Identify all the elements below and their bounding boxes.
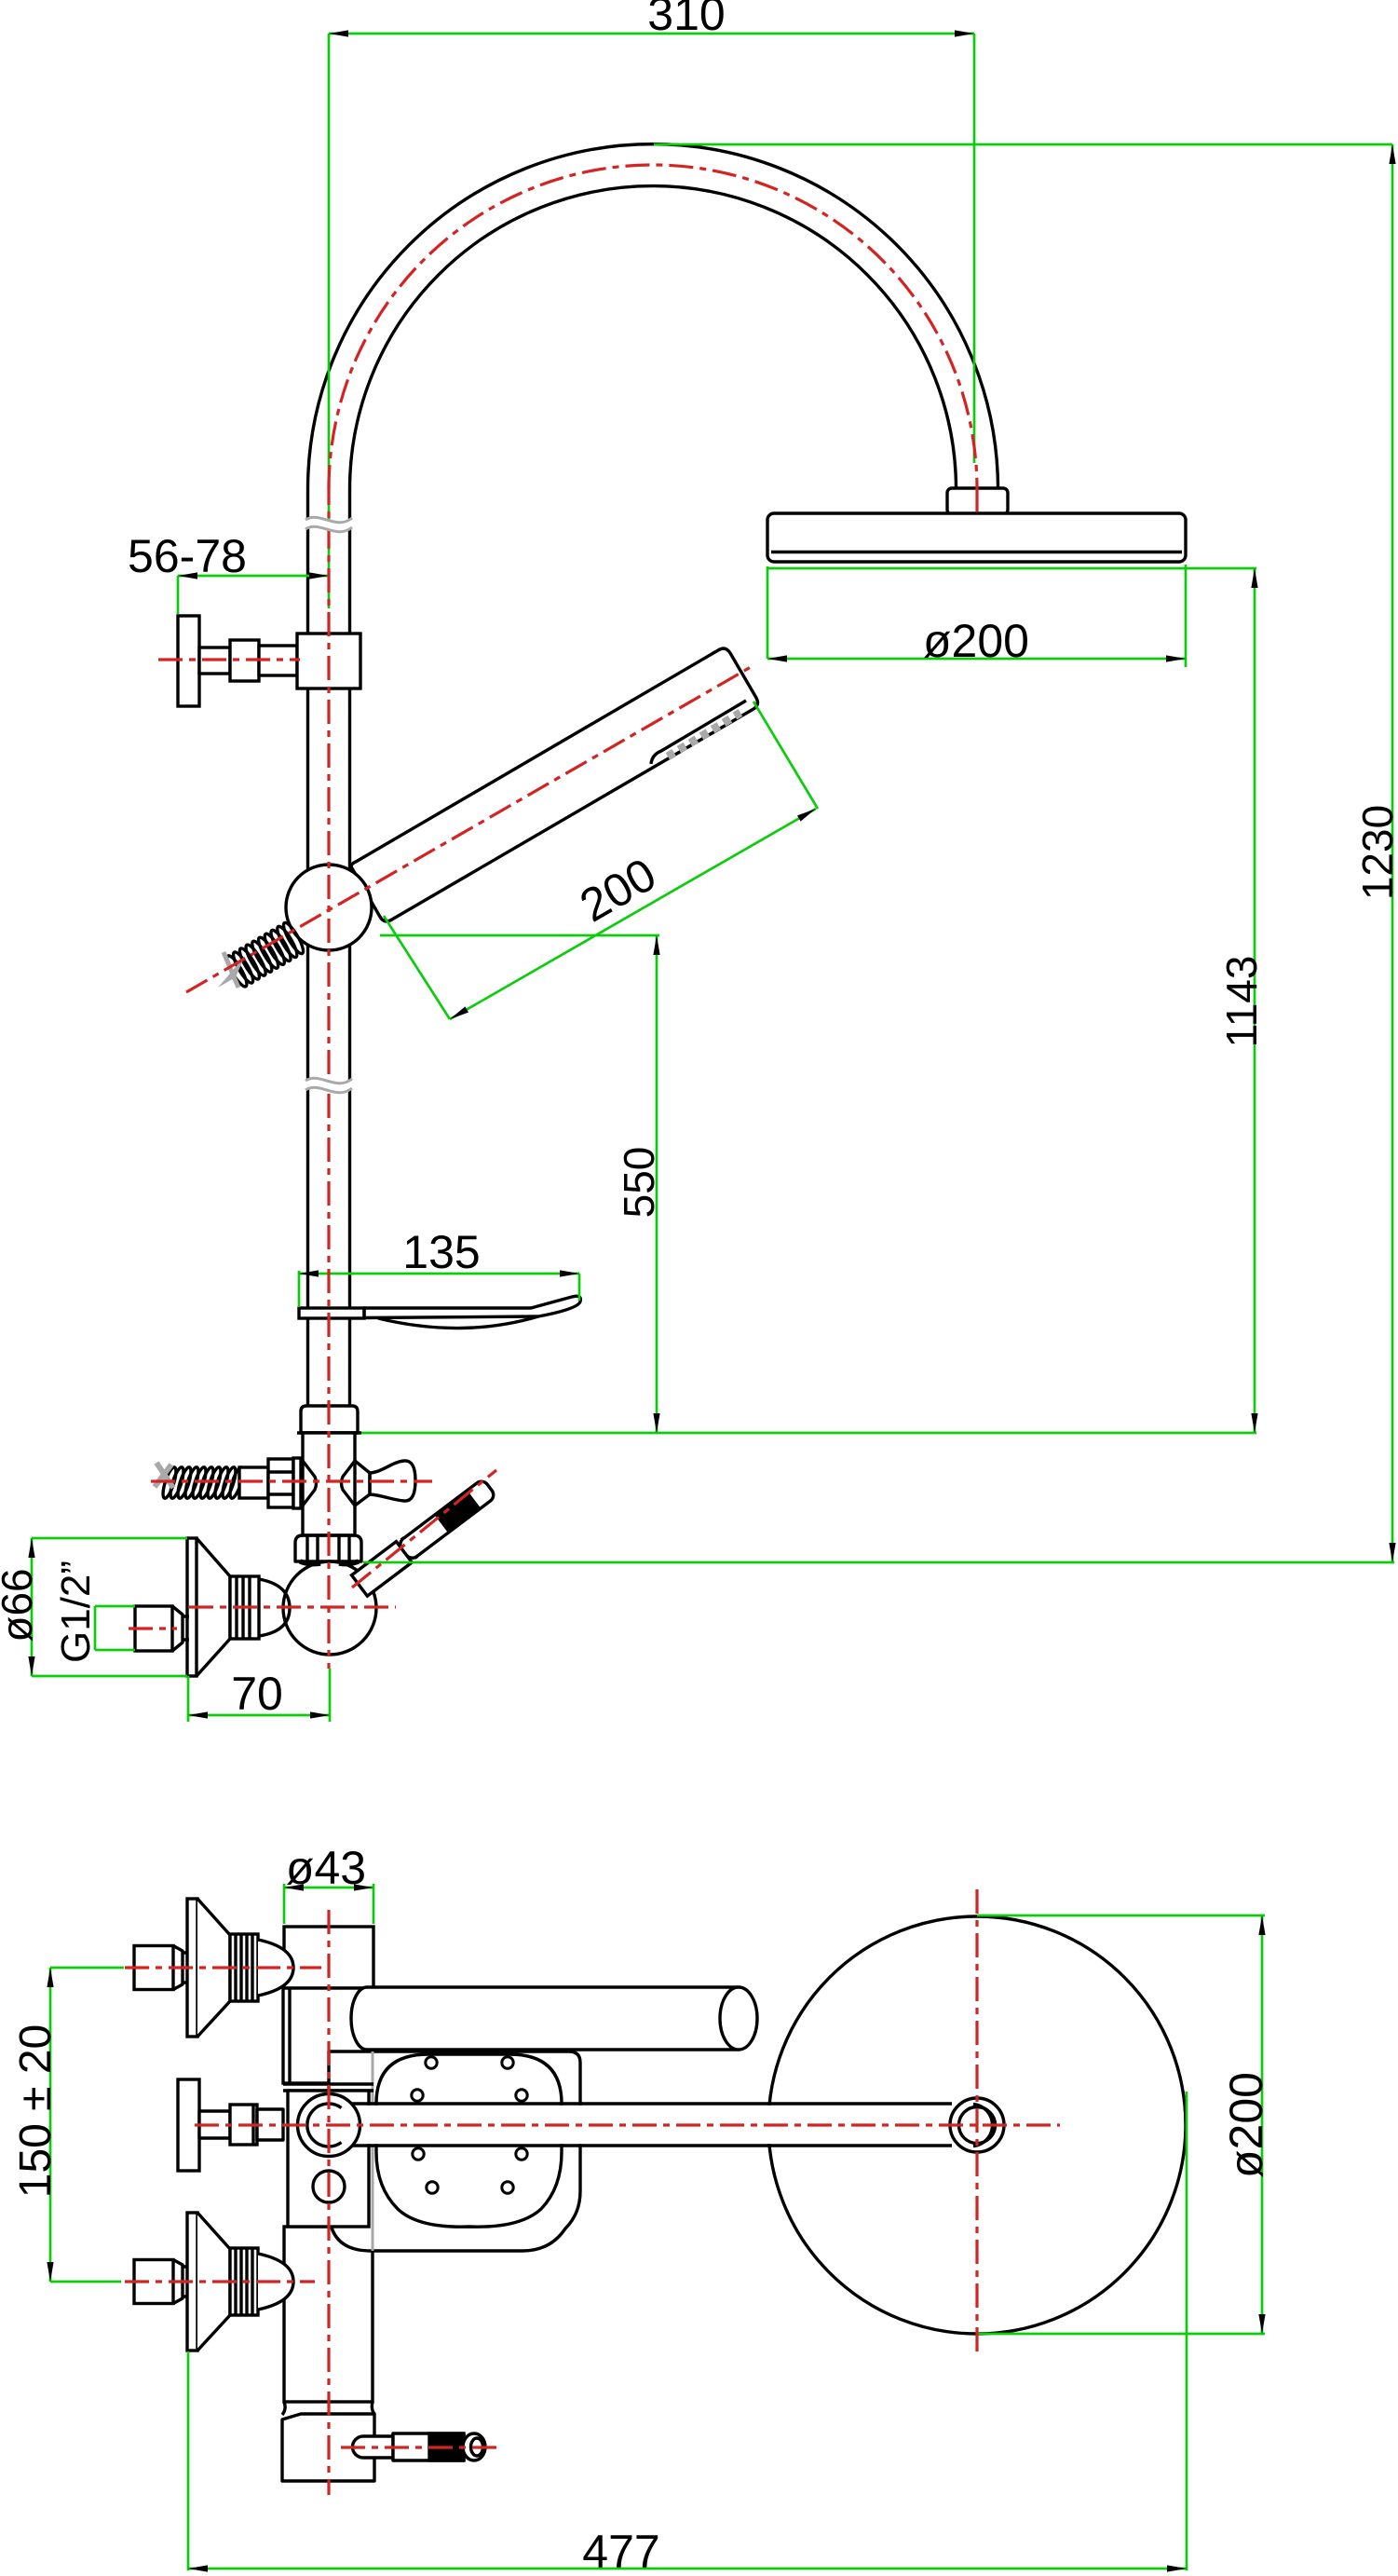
centerline head circle <box>975 1889 978 2357</box>
collar ribs <box>305 1535 308 1561</box>
dim 200 diagonal <box>384 702 818 1019</box>
pivot boss ring <box>950 2098 1004 2152</box>
diverter knob funnel <box>355 1461 370 1506</box>
shower head rim line <box>771 551 1182 553</box>
valve body <box>303 1433 355 1535</box>
soap dish plan inner bowl <box>376 2054 562 2227</box>
plan top handle dome <box>258 1940 293 1996</box>
outlet step <box>391 2433 394 2460</box>
ball joint <box>283 1561 376 1655</box>
shower head disc <box>767 513 1186 562</box>
svg-text:1143: 1143 <box>1217 956 1266 1048</box>
centerline pipe vertical <box>327 481 330 1669</box>
head connector <box>947 488 1008 514</box>
plan top handle escutcheon cone <box>197 1899 230 2037</box>
head disc circle plan <box>768 1916 1186 2334</box>
hose gray arrow <box>218 956 245 988</box>
dim G1/2 <box>95 1606 135 1650</box>
handshower wand body <box>351 648 757 921</box>
soap dish bowl <box>378 1316 538 1329</box>
dim 56-78 <box>178 572 329 614</box>
handshower pivot ball <box>286 865 372 950</box>
green line wand-holder level <box>363 1561 1394 1564</box>
centerline gooseneck arc <box>329 165 977 489</box>
plan middle handle stem <box>199 2111 230 2138</box>
green line head bottom level <box>767 567 1256 570</box>
supply shaft <box>239 1467 268 1498</box>
dim 310 <box>329 30 974 608</box>
dish drain holes <box>426 2057 437 2068</box>
pivot outer circle <box>298 2094 360 2157</box>
diverter tee block <box>297 634 360 688</box>
plan top handle knurl <box>230 1934 258 2001</box>
diverter handle neck <box>259 646 297 675</box>
column neck <box>282 2402 374 2415</box>
valve seat bulge left <box>303 1461 317 1506</box>
outlet big tube <box>393 2433 464 2460</box>
svg-text:ø43: ø43 <box>286 1842 366 1894</box>
handshower cylinder end cap <box>720 1987 757 2050</box>
valve lower collar <box>295 1535 361 1561</box>
diverter handle stem <box>199 647 230 674</box>
green line handshower level <box>380 934 659 937</box>
centerline connector stub <box>975 489 978 511</box>
thread gray mark <box>155 1463 173 1488</box>
plan bottom handle hex chamfer <box>173 2260 183 2304</box>
soap dish clamp <box>299 1308 364 1318</box>
handshower nozzle strip <box>668 713 740 756</box>
pipe break upper <box>305 517 352 532</box>
dim 135 <box>299 1270 579 1307</box>
outlet end rings <box>463 2433 485 2460</box>
plan bottom handle dome <box>258 2254 293 2310</box>
svg-text:1230: 1230 <box>1353 805 1398 900</box>
column hidden edge gray <box>372 2051 374 2251</box>
outlet small tube <box>353 2436 394 2458</box>
dim 1230 <box>1389 144 1395 1562</box>
supply ring <box>293 1458 301 1508</box>
wall supply thread <box>160 1465 179 1499</box>
bracket divider lines <box>283 2082 373 2085</box>
soap dish tray <box>364 1296 580 1317</box>
inlet hex chamfer <box>172 1606 183 1651</box>
dim 550 <box>653 935 659 1433</box>
outlet grip band <box>429 2433 464 2460</box>
diverter handle flange <box>178 616 199 706</box>
column lower section plan <box>284 2227 373 2402</box>
svg-text:70: 70 <box>231 1668 283 1720</box>
diverter handle knurl <box>230 640 259 681</box>
dim 150pm20 <box>47 1968 124 2282</box>
plan bottom handle escutcheon plate <box>187 2213 197 2351</box>
inlet hex cap <box>135 1606 172 1651</box>
centerline diverter <box>151 1479 432 1482</box>
inlet knurl nut <box>230 1576 259 1639</box>
pivot inner c <box>307 2104 342 2147</box>
centerline inlet <box>129 1627 177 1629</box>
plan top handle escutcheon plate <box>187 1899 197 2037</box>
inlet dome <box>259 1579 290 1636</box>
green line holder level <box>361 1432 1256 1435</box>
centerline outlet stub <box>341 2446 496 2448</box>
arm tube plan <box>350 2106 952 2144</box>
column mid section plan <box>283 1988 373 2083</box>
gooseneck inner arc <box>350 186 957 489</box>
svg-text:477: 477 <box>582 2526 659 2576</box>
handshower spray face line <box>651 701 746 764</box>
soap dish plan outer <box>329 2051 580 2251</box>
dim phi200 plan <box>977 1915 1266 2334</box>
plan bottom handle escutcheon cone <box>197 2213 230 2351</box>
bottom block plan <box>282 2414 374 2481</box>
centerline handshower diagonal <box>186 667 751 992</box>
inlet escutcheon plate <box>187 1538 197 1676</box>
pipe break lower <box>305 1078 352 1093</box>
svg-text:ø66: ø66 <box>0 1568 41 1642</box>
svg-text:ø200: ø200 <box>923 615 1029 667</box>
centerline plan bottom handle <box>125 2280 315 2283</box>
svg-text:550: 550 <box>615 1147 663 1219</box>
centerline hanging wand <box>352 1470 496 1588</box>
dim 1143 <box>1251 568 1257 1433</box>
arm end cap <box>973 2105 992 2147</box>
plan bottom handle knurl <box>230 2248 258 2315</box>
hose spring coil <box>280 920 306 956</box>
centerline plan column <box>327 1910 330 2495</box>
centerline plan arm <box>195 2123 1060 2126</box>
supply hex nut <box>268 1459 293 1507</box>
dim 70 <box>188 1669 330 1722</box>
collar shadow crescents <box>300 1561 320 1564</box>
dim phi43 <box>284 1884 373 1924</box>
dim phi200 head <box>767 565 1186 667</box>
svg-text:150 ± 20: 150 ± 20 <box>11 2024 61 2199</box>
valve upper collar <box>301 1406 358 1433</box>
dim 477 <box>188 2092 1187 2572</box>
centerline ball <box>189 1605 396 1608</box>
green line arc top level <box>654 143 1392 146</box>
screw hole <box>313 2171 345 2202</box>
riser pipe <box>306 489 309 1406</box>
svg-text:G1/2”: G1/2” <box>53 1561 99 1663</box>
plan middle handle flange <box>178 2079 199 2171</box>
svg-text:310: 310 <box>647 0 725 40</box>
handshower cylinder plan <box>351 1987 739 2050</box>
centerline plan top handle <box>125 1966 321 1969</box>
bracket plate plan <box>288 2091 369 2227</box>
plan bottom handle hex cap <box>134 2260 173 2304</box>
plan middle handle knurl <box>230 2105 257 2145</box>
valve seat bulge right <box>342 1461 356 1506</box>
hanging wand group <box>352 1477 498 1596</box>
pivot inner circle <box>959 2107 996 2144</box>
centerline top handle <box>158 658 300 661</box>
gooseneck outer arc <box>308 144 998 489</box>
plan middle handle neck <box>257 2109 283 2140</box>
svg-text:ø200: ø200 <box>1220 2072 1272 2178</box>
dim phi66 <box>28 1538 187 1676</box>
column top section plan <box>284 1927 373 1988</box>
plan top handle hex cap <box>134 1946 173 1990</box>
plan top handle hex chamfer <box>173 1946 183 1990</box>
svg-text:135: 135 <box>402 1226 480 1278</box>
inlet escutcheon cone <box>197 1538 230 1676</box>
diverter knob <box>370 1461 415 1501</box>
svg-text:56-78: 56-78 <box>128 530 247 582</box>
